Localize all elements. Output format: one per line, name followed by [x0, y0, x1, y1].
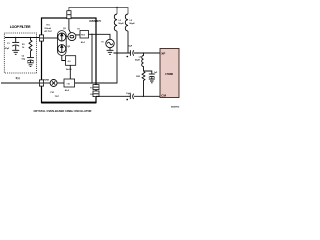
wire varactor to divider: [57, 82, 64, 84]
wire output: [96, 95, 160, 97]
svg-text:1µF: 1µF: [154, 72, 158, 74]
svg-text:LOOP FILTER: LOOP FILTER: [10, 25, 31, 29]
wire T1 to heater pair: [44, 37, 58, 39]
svg-text:Δf≈1: Δf≈1: [81, 41, 86, 44]
capacitor C2: [27, 57, 34, 59]
wire mid rail: [113, 52, 160, 54]
svg-text:50µH: 50µH: [118, 23, 124, 25]
node top-rail/L1 junction: [116, 7, 118, 9]
svg-text:LT1088: LT1088: [165, 73, 173, 76]
inductor L3: [142, 53, 144, 71]
svg-text:Δf=50: Δf=50: [66, 69, 72, 71]
svg-text:C2: C2: [22, 55, 25, 57]
source V1: [106, 39, 114, 47]
svg-text:Δf≈2: Δf≈2: [65, 89, 70, 92]
wire loop filter bus: [5, 37, 40, 39]
svg-text:Q1: Q1: [63, 28, 67, 30]
svg-text:CRYSTAL OVEN-BASED 10MHz OSCIL: CRYSTAL OVEN-BASED 10MHz OSCILLATOR: [34, 109, 92, 113]
capacitor C5 polarized: [129, 94, 131, 100]
current source Q2: [58, 45, 66, 53]
svg-text:10Ω: 10Ω: [136, 76, 140, 78]
heater pair Q1 Q2 pill: [57, 31, 66, 56]
svg-text:IH =: IH =: [46, 25, 51, 27]
svg-text:L1: L1: [119, 20, 122, 22]
wire top supply rail: [69, 8, 128, 15]
wire L1 drop: [116, 8, 118, 15]
terminal T0 on oven top wall: [67, 11, 71, 19]
crystal Y1 stack on oven right wall: [93, 85, 99, 97]
wire divider A to divider B: [69, 65, 71, 79]
node oven-wall drop: [91, 34, 93, 36]
capacitor C1: [15, 38, 17, 43]
svg-text:f(s): f(s): [16, 76, 20, 80]
node inner drop join: [91, 82, 93, 84]
svg-text:AT 75°C: AT 75°C: [44, 30, 52, 33]
oven enclosure box: [42, 18, 97, 103]
svg-text:R1: R1: [22, 44, 25, 46]
resistor R2: [142, 72, 145, 97]
svg-text:50p: 50p: [22, 59, 26, 61]
svg-text:TUNE: TUNE: [44, 80, 50, 82]
wire T2 to varactor: [44, 82, 51, 84]
svg-text:XP: XP: [161, 52, 165, 56]
wire pill to divider A: [62, 55, 66, 60]
wire lamp to R-box: [76, 34, 80, 36]
capacitor C4: [149, 73, 155, 75]
svg-text:50µH: 50µH: [135, 60, 140, 62]
wire L1 to mid rail: [116, 31, 118, 53]
terminal T2 on oven left wall: [39, 80, 43, 86]
block divider A: [66, 56, 76, 66]
svg-text:C1: C1: [7, 43, 10, 45]
inductor L2: [125, 14, 128, 31]
svg-text:10µF: 10µF: [128, 45, 133, 47]
current source Q1: [58, 33, 66, 41]
svg-text:Q2: Q2: [67, 46, 71, 48]
block divider B: [64, 79, 75, 87]
varactor CV1: [50, 80, 57, 87]
terminal T1 on oven left wall: [39, 35, 43, 41]
node C1 tap: [15, 37, 17, 39]
node R1 tap: [30, 37, 32, 39]
node L1 mid: [116, 52, 118, 54]
tune input wire: [1, 82, 39, 84]
wire R-box to source V1: [89, 34, 111, 39]
capacitor C3 polarized: [129, 50, 131, 56]
svg-text:OVEN 80°C: OVEN 80°C: [89, 20, 101, 23]
svg-text:V1: V1: [101, 42, 104, 44]
ground C2: [27, 63, 33, 67]
block R≈1: [80, 31, 89, 39]
ground C1: [12, 50, 19, 54]
resistor R1: [29, 38, 32, 58]
svg-text:75°C: 75°C: [55, 96, 60, 98]
svg-text:CM: CM: [161, 93, 166, 97]
IC U2 block: [160, 49, 179, 98]
wire pill to lamp: [66, 36, 68, 38]
oven box bottom heavy edge: [41, 102, 96, 104]
svg-text:47µF: 47µF: [5, 47, 10, 50]
wire cap tap: [144, 71, 152, 74]
wire inner drop: [91, 34, 93, 83]
wire divider to riser: [75, 53, 117, 83]
wire L2 to mid rail: [127, 31, 129, 53]
svg-text:CV1: CV1: [50, 92, 55, 94]
svg-text:fO: fO: [77, 29, 80, 31]
svg-text:110mA: 110mA: [44, 27, 51, 30]
svg-text:fO: fO: [90, 94, 93, 96]
wire T0 to oscillator: [69, 19, 71, 33]
node L3 tap: [143, 52, 145, 54]
svg-text:1k: 1k: [22, 47, 25, 49]
loop filter dashed box: [4, 33, 36, 73]
svg-text:AN98 F02: AN98 F02: [171, 105, 179, 108]
ground V1: [107, 48, 114, 55]
inductor L1: [114, 14, 117, 31]
svg-text:10µF: 10µF: [126, 93, 131, 95]
oscillator lamp U1: [68, 33, 76, 41]
node output R2 join: [143, 96, 145, 98]
svg-text:50µH: 50µH: [129, 23, 135, 25]
ground C4: [149, 79, 155, 83]
svg-text:L2: L2: [130, 20, 133, 22]
